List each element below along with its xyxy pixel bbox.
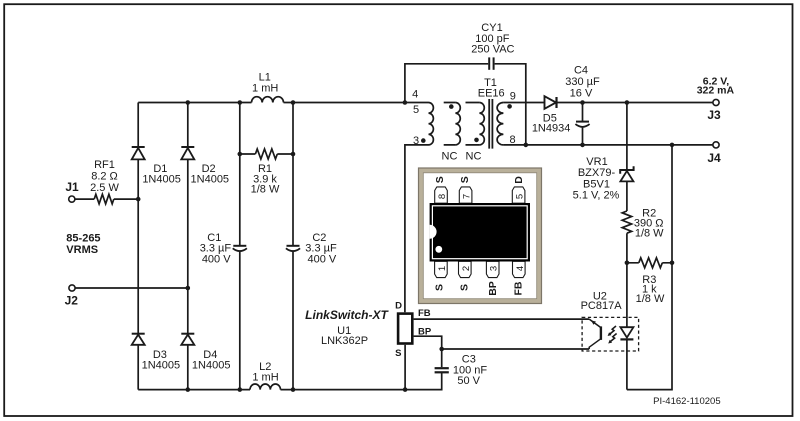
junction J2-D2 [186,286,191,291]
svg-text:50 V: 50 V [457,375,480,387]
phase dot T1 primary [421,138,426,143]
phase dot T1 bias [449,104,454,109]
wire J2 input [75,287,188,289]
IC photo pin numbers [437,194,526,271]
transformer T1 core [489,99,492,149]
capacitor C2 [286,246,300,251]
svg-text:9: 9 [510,91,516,103]
svg-text:330 µF: 330 µF [565,76,600,88]
junction L2 right [291,387,296,392]
svg-text:250 VAC: 250 VAC [471,43,514,55]
inductor L2 [250,384,281,390]
junction D4 bottom [186,387,191,392]
svg-text:3: 3 [489,266,500,271]
svg-text:85-265: 85-265 [66,232,100,244]
connector J4 [713,142,719,148]
wire U1 BP to optocoupler [414,336,590,349]
wire C2 column [292,103,294,390]
diode D1 [132,147,145,159]
optocoupler U2 light arrows [610,326,617,342]
svg-text:1: 1 [437,266,448,271]
junction U1 source [403,387,408,392]
junction C1 top [238,100,243,105]
wire LED column [626,263,628,390]
transformer T1 bias winding leads (NC) [444,103,456,145]
bold labels [65,76,735,407]
wire bottom DC rail [138,372,442,389]
svg-text:J2: J2 [65,293,79,307]
capacitor CY1 [489,57,493,69]
svg-text:16 V: 16 V [570,87,593,99]
wire primary return / U1 drain [405,145,429,312]
svg-text:BP: BP [418,327,432,338]
optocoupler U2 dashed box [582,317,639,351]
resistor R2 [622,211,631,233]
IC photo bottom pins [435,261,525,277]
diode D5 [545,96,557,109]
junction C2 top [291,100,296,105]
svg-text:1 mH: 1 mH [252,372,278,384]
wire U1 source lead [404,345,406,390]
phase dot T1 second bias [474,138,479,143]
capacitor C4 [575,122,589,127]
wire C4 column [582,103,584,145]
wire top AC rail [138,102,428,104]
resistor RF1 [94,194,114,204]
phase dot T1 secondary [507,104,512,109]
svg-text:NC: NC [442,151,458,163]
svg-text:400 V: 400 V [202,254,231,266]
svg-text:J3: J3 [707,108,721,122]
wire secondary return to J4 [503,144,712,146]
transformer T1 primary winding [429,103,434,145]
IC U1 (LNK362P) box [398,314,412,344]
svg-text:5: 5 [515,194,526,199]
wire output return right column [627,145,672,390]
junction J1-D1 [136,197,141,202]
IC photo pin names [433,176,525,296]
wire D1 column [137,103,139,390]
optocoupler U2 LED [620,327,633,339]
wire D5 cathode to J3 [557,102,713,104]
junction C4 bottom [580,143,585,148]
transformer T1 second bias winding leads (NC) [466,103,480,145]
IC photo frame [419,168,542,304]
svg-text:4: 4 [515,266,526,271]
svg-text:1/8 W: 1/8 W [635,227,664,239]
svg-text:VR1: VR1 [586,156,607,168]
svg-text:S: S [395,348,401,359]
svg-text:8: 8 [437,194,448,199]
wire D2 column [187,103,189,390]
svg-text:8.2 Ω: 8.2 Ω [91,170,118,182]
IC body notch [430,225,437,239]
svg-text:S: S [434,176,446,183]
connector J3 [713,99,719,105]
svg-text:PI-4162-110205: PI-4162-110205 [653,396,720,407]
svg-text:BP: BP [487,281,499,296]
svg-text:PC817A: PC817A [581,300,623,312]
junction D2 top [186,100,191,105]
junction VR1 top [625,100,630,105]
svg-text:D: D [395,300,402,311]
svg-text:5: 5 [413,104,419,116]
svg-text:1/8 W: 1/8 W [636,293,665,305]
capacitor C3 [435,368,449,372]
junction T1 pin4 [403,100,408,105]
junction BP-C3 [439,347,444,352]
junction L2 left [238,387,243,392]
IC photo top pins [435,187,525,203]
svg-text:S: S [459,176,471,183]
svg-text:1N4005: 1N4005 [192,359,231,371]
svg-text:S: S [433,284,445,291]
IC photo body [430,203,530,262]
optocoupler U2 phototransistor [589,319,601,349]
wire R1 row [240,153,293,155]
svg-text:J4: J4 [707,151,721,165]
svg-text:NC: NC [466,151,482,163]
wire C3 column [441,349,443,367]
transformer T1 secondary winding [497,103,503,145]
svg-text:2.5 W: 2.5 W [90,182,119,194]
diode D4 [181,334,194,345]
wire CY1 loop [405,64,526,145]
wire R3 row [627,262,672,264]
diode D2 [181,147,194,159]
junction return J4 [670,143,675,148]
svg-text:1N4934: 1N4934 [532,123,571,135]
svg-text:1N4005: 1N4005 [191,173,230,185]
wire secondary output to D5 [503,102,544,104]
connector J1 [69,196,75,202]
junction R1 right [291,152,296,157]
svg-text:5.1 V, 2%: 5.1 V, 2% [573,189,620,201]
transformer T1 second bias winding [479,103,484,145]
capacitor C1 [233,246,247,251]
junction C4 top [580,100,585,105]
IC body pin1 dot [435,246,442,253]
svg-text:D: D [513,176,525,184]
svg-text:RF1: RF1 [94,159,115,171]
svg-text:FB: FB [418,308,431,319]
svg-text:FB: FB [513,281,525,295]
junction secondary pin8 [524,143,529,148]
svg-text:C4: C4 [574,64,588,76]
svg-text:322 mA: 322 mA [697,85,735,97]
svg-text:8: 8 [509,134,515,146]
diode D3 [132,334,145,345]
svg-text:LinkSwitch-XT: LinkSwitch-XT [305,308,389,322]
junction R3 right [670,261,675,266]
svg-text:1N4005: 1N4005 [142,173,181,185]
svg-text:1 mH: 1 mH [252,83,278,95]
svg-text:4: 4 [412,89,418,101]
svg-text:1N4005: 1N4005 [142,359,181,371]
wire C1 column [239,103,241,390]
svg-text:VRMS: VRMS [66,244,98,256]
connector J2 [69,285,75,291]
svg-text:7: 7 [462,194,473,199]
zener VR1 [620,166,633,181]
wire J1 input [75,198,138,200]
svg-text:EE16: EE16 [478,88,505,100]
svg-text:2: 2 [461,266,472,271]
inductor L1 [252,97,284,103]
svg-text:3: 3 [413,135,419,147]
junction R1 left [238,152,243,157]
svg-text:LNK362P: LNK362P [321,335,368,347]
resistor R1 [255,149,277,159]
transformer T1 bias winding [455,103,460,145]
svg-text:1/8 W: 1/8 W [251,184,280,196]
wire VR1/R2 column [626,103,628,263]
svg-text:J1: J1 [65,180,79,194]
svg-text:400 V: 400 V [308,254,337,266]
junction R3 left [625,261,630,266]
svg-text:S: S [459,284,471,291]
wire U1 FB to optocoupler [414,318,590,320]
resistor R3 [639,258,663,268]
